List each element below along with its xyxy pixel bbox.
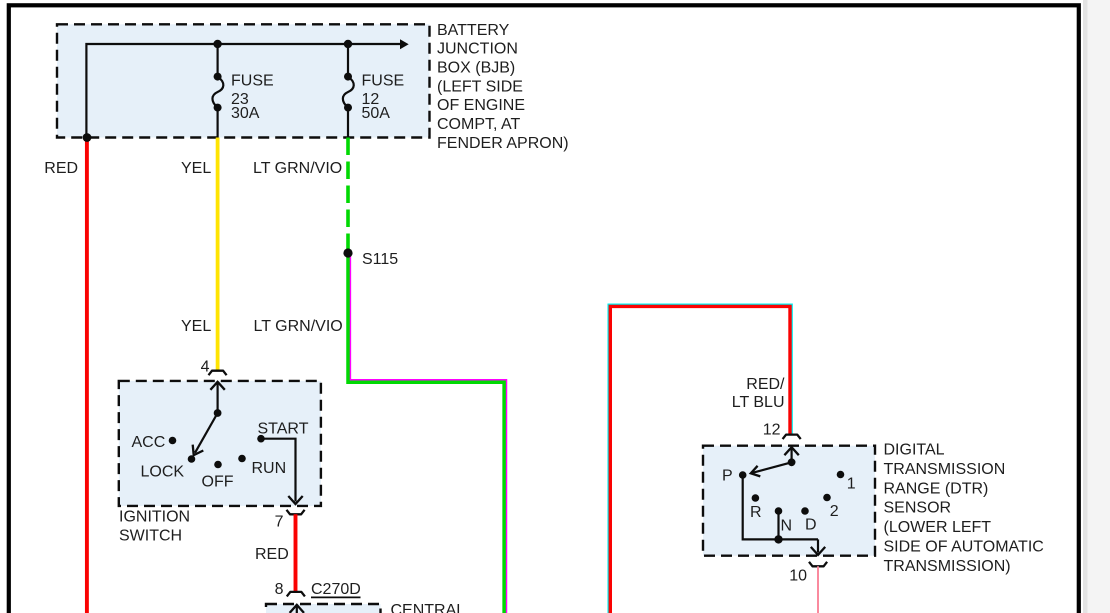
svg-text:RED: RED — [44, 160, 78, 177]
contact R — [752, 494, 760, 502]
svg-text:CENTRAL: CENTRAL — [391, 602, 466, 613]
svg-text:YEL: YEL — [181, 318, 211, 335]
fuse F12 lead from bus — [347, 44, 349, 74]
ignition switch component label — [119, 509, 190, 545]
wire: RED feed, BJB to bottom of page — [85, 138, 89, 613]
svg-text:LOCK: LOCK — [141, 463, 185, 480]
svg-text:BATTERY: BATTERY — [437, 22, 510, 39]
pin 8 connector — [287, 592, 305, 597]
svg-text:(LOWER LEFT: (LOWER LEFT — [884, 519, 992, 536]
svg-text:JUNCTION: JUNCTION — [437, 41, 518, 58]
pin 12 connector — [783, 435, 801, 440]
contact OFF — [214, 461, 222, 469]
svg-text:LT GRN/VIO: LT GRN/VIO — [254, 318, 343, 335]
wire: PNK from pin 10 to page bottom — [817, 566, 819, 613]
fuse F12 value label — [362, 72, 405, 122]
svg-text:RANGE (DTR): RANGE (DTR) — [884, 480, 989, 497]
ignition switch rotor arm toward LOCK — [195, 413, 218, 453]
svg-text:BOX (BJB): BOX (BJB) — [437, 60, 515, 77]
fuse F23 value label — [231, 72, 274, 122]
node: bus to fuse 23 junction — [213, 40, 221, 48]
contact LOCK — [188, 455, 196, 463]
svg-text:S115: S115 — [362, 251, 398, 268]
battery junction box BJB (dashed box, blue fill) — [57, 24, 430, 137]
fuse F12 symbol — [344, 73, 352, 81]
svg-text:IGNITION: IGNITION — [119, 509, 190, 526]
pin 7 connector — [287, 510, 305, 515]
svg-text:7: 7 — [275, 514, 284, 531]
wire: RED/LT BLU from page bottom up and over to DTR pin 12 (lt blu stripe) — [608, 304, 792, 613]
central junction box (bottom, cut off) — [266, 604, 381, 613]
contact ACC — [169, 437, 177, 445]
contact D — [801, 507, 809, 515]
wire: P contact down and right to pin 10 — [743, 475, 818, 539]
ignition switch feed arrow (pin 4 into switch) — [217, 382, 219, 413]
svg-text:P: P — [722, 468, 733, 485]
wire: RED, ignition pin 7 to C270D pin 8 — [294, 514, 298, 592]
ignition switch rotor pivot node — [214, 409, 222, 417]
contact N — [775, 507, 783, 515]
DTR feed arrow (pin 12 into sensor) — [790, 448, 792, 463]
svg-text:2: 2 — [830, 503, 839, 520]
svg-text:12: 12 — [763, 422, 781, 439]
svg-text:OF ENGINE: OF ENGINE — [437, 97, 525, 114]
wire: N contact down to bus — [777, 511, 779, 539]
contact START — [257, 435, 265, 443]
svg-text:10: 10 — [789, 568, 807, 585]
bus arrowhead — [400, 39, 409, 49]
contact 2 — [823, 494, 831, 502]
svg-text:YEL: YEL — [181, 160, 211, 177]
svg-text:30A: 30A — [231, 105, 260, 122]
svg-text:N: N — [781, 518, 793, 535]
DTR rotor arm toward P — [752, 462, 792, 473]
BJB label text — [437, 22, 569, 152]
DTR exit arrow (to pin 10) — [817, 539, 819, 552]
ignition switch box (dashed, blue fill) — [119, 381, 321, 506]
svg-text:DIGITAL: DIGITAL — [884, 442, 945, 459]
svg-text:R: R — [750, 504, 762, 521]
svg-text:SIDE OF AUTOMATIC: SIDE OF AUTOMATIC — [884, 539, 1044, 556]
svg-text:1: 1 — [847, 476, 856, 493]
wire: LT GRN/VIO solid, S115 down, right, down to page bottom (violet stripe) — [350, 253, 506, 613]
svg-text:(LEFT SIDE: (LEFT SIDE — [437, 78, 523, 95]
svg-text:4: 4 — [201, 359, 210, 376]
contact RUN — [238, 455, 246, 463]
DTR rotor pivot node — [788, 458, 796, 466]
wire: START contact to pin 7 (arrow down) — [261, 439, 296, 502]
svg-text:RUN: RUN — [252, 460, 287, 477]
svg-text:COMPT, AT: COMPT, AT — [437, 116, 520, 133]
pin 10 connector — [809, 562, 827, 567]
svg-text:D: D — [805, 517, 817, 534]
node: N tap junction — [774, 535, 782, 543]
DTR sensor box (dashed, blue fill) — [703, 446, 875, 556]
wire: BJB internal bus (up from left node, right to arrow) — [86, 44, 400, 138]
svg-text:50A: 50A — [362, 105, 391, 122]
wire: LT GRN/VIO dashed segment, fuse 12 to splice S115 — [346, 138, 350, 250]
contact 1 — [837, 471, 845, 479]
svg-text:ACC: ACC — [132, 434, 166, 451]
svg-text:LT GRN/VIO: LT GRN/VIO — [253, 160, 342, 177]
fuse F23 lead from bus — [217, 44, 219, 74]
DTR sensor label text — [884, 442, 1044, 575]
wire: YEL, fuse 23 to ignition switch pin 4 — [216, 138, 220, 371]
wire label RED/ LT BLU — [732, 376, 785, 411]
svg-text:8: 8 — [275, 581, 284, 598]
svg-text:TRANSMISSION): TRANSMISSION) — [884, 558, 1011, 575]
contact P — [739, 471, 747, 479]
svg-text:START: START — [258, 421, 309, 438]
svg-text:RED/: RED/ — [746, 376, 785, 393]
node: bus to RED feed junction — [83, 133, 92, 142]
splice S115 — [343, 248, 352, 257]
svg-text:FENDER APRON): FENDER APRON) — [437, 135, 569, 152]
svg-text:SENSOR: SENSOR — [884, 500, 952, 517]
svg-text:LT BLU: LT BLU — [732, 394, 785, 411]
right page-edge gray strip — [1083, 0, 1110, 613]
svg-text:RED: RED — [255, 546, 289, 563]
svg-text:FUSE: FUSE — [231, 72, 274, 89]
svg-text:TRANSMISSION: TRANSMISSION — [884, 461, 1006, 478]
svg-text:SWITCH: SWITCH — [119, 528, 182, 545]
svg-text:FUSE: FUSE — [362, 72, 405, 89]
svg-text:OFF: OFF — [202, 474, 234, 491]
fuse F23 symbol — [214, 73, 222, 81]
svg-text:C270D: C270D — [311, 581, 361, 598]
node: bus to fuse 12 junction — [344, 40, 352, 48]
CJB entry arrow (pin 8 into box) — [296, 605, 298, 613]
pin 4 connector — [209, 371, 227, 376]
